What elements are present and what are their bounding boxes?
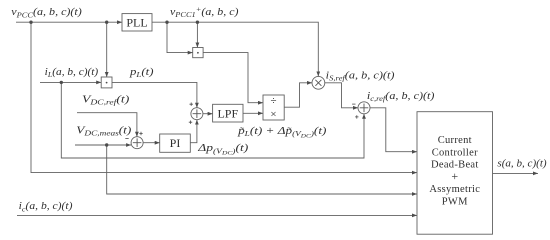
multiplier X	[312, 76, 325, 89]
svg-text:LPF: LPF	[217, 106, 238, 120]
wire VDCref to summing S1 top	[77, 113, 137, 137]
wire dot-multiplier U2 output to divider upper input	[203, 53, 263, 103]
svg-text:PI: PI	[170, 136, 181, 150]
dot symbol in U2	[197, 52, 199, 54]
wire PLL output to multiplier X top	[152, 22, 318, 76]
plus sign inside S1	[133, 138, 142, 147]
wire junction1 drop to dot-multiplier U2 left	[167, 22, 193, 52]
block dot-multiplier U2	[193, 48, 203, 58]
svg-text:PLL: PLL	[126, 15, 147, 29]
plus sign inside S3	[360, 104, 369, 113]
summing junction S3	[358, 102, 370, 114]
wire junction2 drop to dot-multiplier U2 top	[196, 22, 198, 47]
svg-text:s(a, b, c)(t): s(a, b, c)(t)	[497, 158, 547, 169]
svg-text:iL(a, b, c)(t): iL(a, b, c)(t)	[45, 67, 99, 79]
wire summing S3 output to controller box	[370, 108, 417, 152]
wire divider output to multiplier X left	[284, 83, 312, 107]
block current controller	[417, 112, 493, 235]
svg-text:×: ×	[270, 109, 276, 121]
dot symbol in U3	[106, 82, 108, 84]
svg-text:vPCC1+(a, b, c): vPCC1+(a, b, c)	[170, 5, 239, 19]
wire LPF output to divider lower input	[243, 112, 263, 114]
svg-text:÷: ÷	[270, 95, 276, 107]
wire ic input to controller box	[17, 214, 417, 216]
junction dot vPCC B	[105, 21, 108, 24]
svg-text:ic(a, b, c)(t): ic(a, b, c)(t)	[19, 201, 74, 213]
sign minus at S1 left	[125, 138, 128, 140]
sign plus at S3 bottom	[355, 115, 358, 118]
wire iL feedback to summing S3 bottom	[61, 82, 364, 158]
svg-text:Δp(VDC)(t): Δp(VDC)(t)	[197, 143, 249, 157]
wire summing S1 output to PI	[143, 142, 160, 144]
svg-text:PWM: PWM	[442, 196, 468, 207]
svg-text:vPCC(a, b, c)(t): vPCC(a, b, c)(t)	[11, 7, 82, 19]
wire iL input to dot-multiplier U3 left	[40, 81, 101, 83]
block divider-multiplier U4	[263, 95, 284, 120]
wire VDCmeas to summing S1 left	[75, 144, 131, 146]
wire summing S2 output to LPF	[203, 113, 213, 115]
svg-text:ic,ref(a, b, c)(t): ic,ref(a, b, c)(t)	[367, 91, 435, 103]
wire vPCC drop to controller box	[31, 22, 417, 172]
wire vPCC junction drop to dot-multiplier U3 top	[106, 22, 108, 77]
wire multiplier X output to summing S3 left	[325, 83, 358, 108]
plus sign inside S2	[193, 109, 202, 118]
sign minus at S3 left	[352, 103, 355, 105]
junction dot vPCC1 A	[165, 21, 168, 24]
wire pL to summing S2 top	[112, 82, 197, 107]
svg-text:Current: Current	[438, 135, 472, 146]
svg-text:Assymetric: Assymetric	[429, 184, 480, 195]
wire vPCC input to PLL	[16, 21, 122, 23]
svg-text:+: +	[451, 169, 458, 183]
svg-text:iS,ref(a, b, c)(t): iS,ref(a, b, c)(t)	[326, 70, 396, 82]
block PI	[160, 134, 191, 152]
block PLL	[122, 14, 152, 31]
sign plus at S2 bottom	[189, 121, 192, 124]
svg-text:VDC,meas(t): VDC,meas(t)	[76, 126, 132, 138]
block LPF	[213, 104, 243, 122]
junction dot iL	[60, 81, 63, 84]
summing junction S2	[191, 108, 203, 120]
sign plus at S1 top	[139, 132, 142, 135]
wire controller box output s	[493, 172, 538, 174]
block dot-multiplier U3	[101, 77, 112, 88]
junction dot vPCC1 B	[196, 21, 199, 24]
junction dot VDCmeas	[105, 143, 108, 146]
svg-text:Controller: Controller	[432, 147, 478, 158]
times sign inside X	[315, 80, 321, 86]
sign plus at S2 top	[190, 103, 193, 106]
junction dot vPCC A	[29, 21, 32, 24]
svg-text:pL(t): pL(t)	[129, 67, 155, 79]
svg-text:p̃L(t) + Δp̃(VDC)(t): p̃L(t) + Δp̃(VDC)(t)	[237, 126, 327, 140]
wire PI output to summing S2 bottom	[190, 120, 197, 143]
summing junction S1	[131, 137, 143, 149]
wire VDCmeas drop to controller box	[107, 145, 417, 194]
svg-text:VDC,ref(t): VDC,ref(t)	[82, 95, 130, 107]
